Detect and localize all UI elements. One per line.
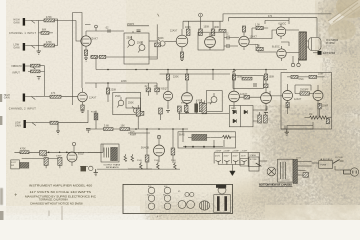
socket S8 xyxy=(190,192,194,196)
svg-text:HIGH: HIGH xyxy=(4,95,10,97)
capacitor C10 xyxy=(240,95,261,99)
output transformer T2 xyxy=(299,32,307,60)
svg-text:20MF: 20MF xyxy=(42,156,48,158)
svg-text:GAIN: GAIN xyxy=(14,21,20,24)
cathode parts V1b xyxy=(81,105,85,112)
tube V1a 12AX7 xyxy=(81,31,91,50)
wire grid V1a xyxy=(76,21,81,42)
svg-text:BOTTOM VIEW OF CHASSIS: BOTTOM VIEW OF CHASSIS xyxy=(259,183,292,187)
wire R10 on xyxy=(58,110,88,123)
line junction dots xyxy=(135,128,184,130)
text labels group xyxy=(4,16,344,218)
svg-text:.02: .02 xyxy=(225,34,229,36)
wire trem out xyxy=(80,152,101,166)
svg-text:EXT SPKR: EXT SPKR xyxy=(323,53,335,55)
electrolytic C17 xyxy=(194,102,198,114)
resistor R17 xyxy=(242,26,245,32)
svg-text:100K: 100K xyxy=(214,27,220,29)
svg-text:10K: 10K xyxy=(121,126,126,128)
svg-text:250K: 250K xyxy=(128,103,134,105)
svg-text:STAND: STAND xyxy=(250,154,257,157)
svg-text:SR-1: SR-1 xyxy=(231,108,237,110)
electrolytic C21 xyxy=(216,160,221,164)
svg-text:68K: 68K xyxy=(42,30,47,32)
svg-text:220K: 220K xyxy=(121,81,127,83)
svg-text:470: 470 xyxy=(268,16,273,18)
lamp LP1 xyxy=(81,166,94,171)
svg-text:450V: 450V xyxy=(224,156,230,158)
wire R9 to V1b grid xyxy=(61,96,78,98)
svg-text:BIAS: BIAS xyxy=(179,133,185,136)
resistor R33 5.6K xyxy=(104,128,114,131)
svg-text:V2: V2 xyxy=(147,194,149,196)
resistor R37 zigzag xyxy=(223,135,232,138)
label choke dark xyxy=(104,164,121,170)
svg-text:500K: 500K xyxy=(158,38,164,40)
pot VR6 xyxy=(210,93,217,104)
oscillator box xyxy=(281,73,332,130)
resistor R30 vertical xyxy=(136,105,140,129)
socket S6 xyxy=(164,203,171,210)
label caps row xyxy=(215,151,248,158)
socket S4 xyxy=(164,195,171,202)
svg-text:.02: .02 xyxy=(144,86,148,88)
wire vib vertical xyxy=(44,66,46,96)
resistor R19 1.5K grid xyxy=(256,47,263,50)
svg-text:LOW: LOW xyxy=(14,45,20,47)
svg-text:12AX7: 12AX7 xyxy=(170,30,178,33)
ext speaker jack xyxy=(313,51,322,55)
resistor R7 xyxy=(31,64,45,67)
svg-text:CHANNEL 1 INPUT: CHANNEL 1 INPUT xyxy=(9,32,37,35)
tube V2a 12AX7 xyxy=(176,29,188,52)
resistor R39 xyxy=(40,151,47,156)
svg-text:GAIN: GAIN xyxy=(14,46,20,49)
tremolo line y158.4 xyxy=(22,157,62,159)
wire PS top line xyxy=(178,113,229,115)
tube V1b 12AX7 xyxy=(78,88,88,105)
footswitch box FS1 xyxy=(11,160,29,169)
capacitor C7 xyxy=(139,111,144,115)
speckle zones xyxy=(318,0,360,55)
wire links xyxy=(240,159,267,167)
socket S5 xyxy=(148,203,155,210)
control box channel1 vol/tone xyxy=(124,33,149,64)
tube V3 12AX7 phase inverter xyxy=(239,32,249,50)
wire R1 to node A xyxy=(55,20,77,22)
resistor R24 vertical xyxy=(199,99,203,112)
svg-text:FUSE: FUSE xyxy=(321,165,327,167)
capacitor C4 xyxy=(86,129,90,134)
tube V4 6L6GC xyxy=(276,24,285,39)
svg-text:12AX7: 12AX7 xyxy=(250,35,258,38)
standby box xyxy=(248,153,261,167)
pot VR1 250K VOL xyxy=(128,36,135,48)
svg-text:450V: 450V xyxy=(215,156,221,158)
svg-text:1M: 1M xyxy=(309,114,312,116)
tube V6b triode xyxy=(182,93,193,108)
svg-text:6L6GC: 6L6GC xyxy=(279,24,287,26)
svg-text:100K: 100K xyxy=(204,27,210,29)
resistor R18 1.5K grid xyxy=(252,26,268,38)
socket S3 xyxy=(148,195,155,202)
svg-text:12AX7: 12AX7 xyxy=(240,93,248,96)
capacitor C12 2500PF xyxy=(295,92,314,95)
wire J1 to grid resistor xyxy=(36,20,44,22)
driver stage box xyxy=(198,32,224,50)
label bottom view xyxy=(259,183,293,187)
svg-text:6L6: 6L6 xyxy=(164,186,167,188)
wire plates to OT xyxy=(265,18,299,53)
ground G1 xyxy=(37,51,42,54)
svg-text:V5: V5 xyxy=(178,191,180,193)
resistor R25 osc xyxy=(287,75,309,78)
pot box mid xyxy=(206,91,222,112)
svg-text:VIBRATO: VIBRATO xyxy=(11,65,22,68)
ground G2 xyxy=(84,58,88,61)
switch SW1 xyxy=(333,160,344,164)
resistor R46 fuse dropper xyxy=(94,111,98,130)
svg-text:4 ¼": 4 ¼" xyxy=(157,215,162,218)
svg-text:1/2 6SQ7: 1/2 6SQ7 xyxy=(157,89,168,91)
svg-text:5U4: 5U4 xyxy=(130,132,135,134)
resistor R43 xyxy=(303,173,309,178)
bias sub-box xyxy=(178,132,236,148)
svg-text:2500PF: 2500PF xyxy=(300,90,309,92)
svg-text:HIGH: HIGH xyxy=(14,20,20,22)
jack J4 high gain input xyxy=(23,94,36,102)
svg-text:450V: 450V xyxy=(233,156,239,158)
electrolytic C18 xyxy=(202,101,207,114)
cathode resistor R12 xyxy=(180,52,184,61)
svg-text:6L6GC: 6L6GC xyxy=(272,47,280,49)
tube V2b 12AX7 xyxy=(205,33,216,50)
wire trem tube plate xyxy=(71,151,73,153)
wire long vertical x82 xyxy=(73,13,83,89)
resistor R10 68K xyxy=(50,121,58,124)
svg-text:1.5K: 1.5K xyxy=(255,24,260,26)
resistor R21 xyxy=(185,74,188,93)
label SP1 xyxy=(326,39,338,45)
wire caps common xyxy=(218,165,244,172)
wire corner to right rail xyxy=(223,14,332,21)
resistor R42 zigzag hanging xyxy=(174,162,177,170)
fuse box F1 xyxy=(312,161,333,169)
wire x157 lower xyxy=(149,47,157,59)
node terminal T2 B+ xyxy=(199,13,203,21)
svg-text:250K: 250K xyxy=(127,38,133,40)
resistor R2 470K xyxy=(44,44,55,47)
wire top bus to V2a xyxy=(149,40,157,42)
capacitor C25 xyxy=(44,158,48,169)
capacitor C26 xyxy=(58,158,62,169)
fold mark bottom-left xyxy=(15,193,18,196)
svg-text:12AX7: 12AX7 xyxy=(89,97,97,100)
junction row y146.6 xyxy=(185,146,215,148)
rectifier box xyxy=(229,106,253,127)
resistor R9 47K xyxy=(50,95,61,98)
socket S9 big xyxy=(178,201,186,209)
capacitor C15 xyxy=(264,84,269,88)
choke/transformer box T3 xyxy=(101,144,119,162)
title block text xyxy=(25,183,96,205)
svg-text:6L6: 6L6 xyxy=(148,186,151,188)
svg-text:GAIN: GAIN xyxy=(15,124,21,127)
tube V7b triode xyxy=(261,93,272,108)
svg-text:INSTRUMENT AMPLIFIER MODEL: INSTRUMENT AMPLIFIER MODEL 400 xyxy=(29,183,93,187)
svg-text:470K: 470K xyxy=(46,17,52,19)
heater line y129 xyxy=(90,128,188,130)
wire J2 to R2 xyxy=(36,45,44,47)
svg-text:8 OHM: 8 OHM xyxy=(326,42,334,45)
resistor R20 xyxy=(166,74,169,91)
svg-text:115V: 115V xyxy=(296,158,301,160)
svg-text:8MF: 8MF xyxy=(208,103,213,105)
svg-text:BY SW: BY SW xyxy=(250,159,257,161)
wire y169 row xyxy=(97,168,180,170)
pilot lamp PL1 xyxy=(267,167,276,176)
wire junction vertical xyxy=(38,21,40,52)
stains xyxy=(314,0,360,36)
diode D2 xyxy=(244,110,248,114)
capacitor C8 xyxy=(224,36,233,40)
wire top feed xyxy=(183,21,223,29)
pot VR5 xyxy=(132,107,138,114)
chassis layout box xyxy=(123,184,233,213)
power transformer chassis xyxy=(214,195,231,213)
ground G6 solid xyxy=(230,171,236,176)
svg-text:470K: 470K xyxy=(20,149,26,151)
resistor R26 10M xyxy=(309,75,325,78)
svg-text:6SQ7: 6SQ7 xyxy=(78,154,85,156)
svg-text:INPUT: INPUT xyxy=(13,73,21,75)
crease lines top-right xyxy=(333,3,358,22)
resistor R13 100K xyxy=(186,29,190,36)
speaker terminals T3 T4 xyxy=(291,56,300,67)
capacitor C13 25MF xyxy=(318,103,321,109)
AC corner small box xyxy=(249,157,259,171)
wire plate V1a to coupling xyxy=(85,24,124,31)
resistor R38 470K xyxy=(20,151,29,154)
electrolytic C23 xyxy=(233,160,238,164)
resistor R44 zigzag xyxy=(124,154,127,161)
filter can circle xyxy=(218,186,226,194)
svg-text:1A SLO-BLO: 1A SLO-BLO xyxy=(320,158,333,161)
capacitor C9 xyxy=(224,44,233,48)
capacitor C3 0.02 xyxy=(155,43,161,47)
node B+ terminal T1 xyxy=(95,25,98,31)
plug P1 xyxy=(344,168,359,176)
wire osc internals xyxy=(288,85,332,119)
jack J3 vibrato input xyxy=(23,64,36,72)
svg-text:250K: 250K xyxy=(137,43,143,45)
svg-text:LOW: LOW xyxy=(15,123,21,125)
svg-text:CHANGES WITHOUT NOTICE NO 5M/5: CHANGES WITHOUT NOTICE NO 5M/58 xyxy=(30,202,83,205)
wire R2 to bus xyxy=(55,19,58,46)
svg-text:10M: 10M xyxy=(318,74,323,76)
tube V8a osc triode xyxy=(283,84,293,104)
wire coupling ch2 xyxy=(139,83,157,96)
capacitor C1 0.02 xyxy=(108,29,110,33)
capacitor C14 xyxy=(326,119,329,124)
svg-text:40MF: 40MF xyxy=(130,135,137,137)
svg-text:5U4GB: 5U4GB xyxy=(141,148,149,150)
capacitor C11 xyxy=(254,83,256,87)
svg-text:250K: 250K xyxy=(171,160,177,162)
wire stage row grounds xyxy=(166,105,268,113)
tube V8b osc triode xyxy=(313,85,323,104)
svg-text:FOOT: FOOT xyxy=(11,162,17,164)
resistor R15 100K xyxy=(211,29,215,36)
svg-text:OSC: OSC xyxy=(299,79,305,81)
resistor R3 68K xyxy=(39,32,54,35)
resistor R29 xyxy=(286,102,289,108)
pot VR3 500K xyxy=(158,39,165,46)
secondary bus y74 xyxy=(160,73,231,75)
tube V7a triode xyxy=(229,91,240,106)
svg-text:25MF: 25MF xyxy=(322,106,329,108)
ground G4 xyxy=(56,123,60,135)
wire J4 to R9 xyxy=(36,96,50,98)
pot VR4 xyxy=(117,97,124,108)
tube V6a triode xyxy=(163,91,172,105)
resistor R1 470K xyxy=(44,19,55,22)
svg-text:MANUFACTURED BY SUPRO ELECTRON: MANUFACTURED BY SUPRO ELECTRONICS INC xyxy=(25,196,96,199)
wire secondary leads xyxy=(298,162,312,176)
wire PS verticals xyxy=(147,129,183,169)
speaker cutout hatched xyxy=(199,201,209,210)
rectifier tube V9 5U4GB xyxy=(154,145,165,162)
terminal T6 xyxy=(72,142,75,152)
electrolytic C24 xyxy=(241,160,246,164)
choke L1 dark xyxy=(188,134,211,140)
svg-text:.02: .02 xyxy=(105,28,109,30)
resistor R14 100K xyxy=(199,29,203,36)
vertical wire x157 xyxy=(156,24,158,43)
resistor R35 xyxy=(145,155,149,162)
socket S7 xyxy=(185,192,189,196)
wire NFB down xyxy=(316,18,318,38)
resistor R34 xyxy=(120,128,130,131)
wire left feed osc xyxy=(270,91,283,96)
socket S1 xyxy=(148,187,155,194)
svg-text:GAIN: GAIN xyxy=(4,97,10,100)
svg-text:250PF: 250PF xyxy=(127,24,135,26)
ground G5 xyxy=(285,129,290,135)
wire long vertical x72 xyxy=(72,13,74,106)
diode D1 xyxy=(233,110,237,114)
capacitor C2 250PF xyxy=(127,26,149,33)
svg-text:450V: 450V xyxy=(241,156,247,158)
ground G3 xyxy=(37,77,41,80)
svg-text:250K: 250K xyxy=(154,160,160,162)
svg-text:12AX7: 12AX7 xyxy=(91,38,99,41)
wire J5 to R10 xyxy=(37,122,51,124)
jack J5 channel2 input xyxy=(24,120,37,128)
svg-text:100K: 100K xyxy=(237,77,243,79)
capacitor C19 1MF xyxy=(258,115,262,123)
control box channel2 xyxy=(113,92,141,114)
svg-text:47K: 47K xyxy=(51,93,56,95)
wire bottom stub xyxy=(128,168,152,170)
resistor R5 xyxy=(91,55,97,58)
label chassis sockets xyxy=(147,186,180,197)
wire to V2a grid xyxy=(165,41,176,43)
svg-text:CHANNEL 2 INPUT: CHANNEL 2 INPUT xyxy=(9,107,37,110)
resistor R32 vertical xyxy=(177,106,181,120)
crease band top-right xyxy=(328,0,360,26)
jack J2 channel1 low input xyxy=(23,43,36,51)
capacitor C6 xyxy=(155,88,160,92)
wire y147 xyxy=(183,146,223,148)
resistor R36 xyxy=(171,148,175,163)
node dot J-a xyxy=(107,82,109,84)
electrolytic C22 xyxy=(224,160,229,164)
svg-text:V3: V3 xyxy=(163,194,165,196)
long line NFB xyxy=(228,18,317,22)
label fuse xyxy=(320,158,333,167)
svg-text:250K: 250K xyxy=(137,160,143,162)
svg-text:8MF: 8MF xyxy=(181,103,186,105)
label standby xyxy=(250,154,257,161)
power transformer T1 xyxy=(278,159,298,183)
wire bias row xyxy=(211,137,236,147)
terminal T5 xyxy=(157,135,160,145)
resistor R27 zigzag xyxy=(310,116,319,119)
edge smudge marks left xyxy=(0,94,2,102)
diode D3 xyxy=(233,119,237,123)
wire bus risers xyxy=(96,57,266,80)
resistor R41 zigzag hanging xyxy=(157,162,160,170)
bus junction dots xyxy=(107,69,267,71)
svg-text:FUSE: FUSE xyxy=(91,112,97,114)
svg-text:1.5K: 1.5K xyxy=(255,45,260,47)
resistor R40 zigzag hanging xyxy=(140,162,143,170)
wire plug feed xyxy=(333,164,344,171)
ground G7 xyxy=(94,169,98,176)
wire osc bottom nested xyxy=(281,122,313,129)
svg-text:20MF: 20MF xyxy=(56,156,62,158)
svg-text:220K: 220K xyxy=(111,90,117,92)
svg-text:SW: SW xyxy=(11,165,14,167)
wire ch2 plate bus y83 xyxy=(85,83,139,88)
socket S2 xyxy=(164,187,171,194)
svg-text:+20MF: +20MF xyxy=(240,151,247,153)
filter cap bank box xyxy=(214,153,248,164)
junction dots trem xyxy=(48,152,68,154)
svg-text:250K: 250K xyxy=(115,96,121,98)
svg-text:12AX7: 12AX7 xyxy=(294,98,302,101)
svg-text:.05: .05 xyxy=(154,86,158,88)
tremolo line y152.3 xyxy=(14,144,103,152)
tube V10 6SQ7 tremolo xyxy=(67,152,77,166)
pot VR2 250K TONE xyxy=(138,41,145,53)
main B+ bus y69.5 xyxy=(96,69,287,71)
tube V5 6L6GC xyxy=(277,46,286,61)
electrolytic C16 xyxy=(184,103,188,114)
socket S10 big xyxy=(187,201,195,209)
resistor R16 56K xyxy=(219,30,226,33)
svg-text:+20MF: +20MF xyxy=(215,151,222,153)
svg-text:470K: 470K xyxy=(196,101,202,103)
resistor R11 220K xyxy=(106,83,109,102)
resistor R45 zigzag xyxy=(131,154,134,161)
dark label strip chassis xyxy=(216,185,226,188)
jack J1 channel1 high input xyxy=(23,18,36,26)
cathode resistor R4 1.5K xyxy=(84,50,87,58)
resistor R23 xyxy=(264,74,267,93)
svg-text:100K: 100K xyxy=(269,77,275,79)
